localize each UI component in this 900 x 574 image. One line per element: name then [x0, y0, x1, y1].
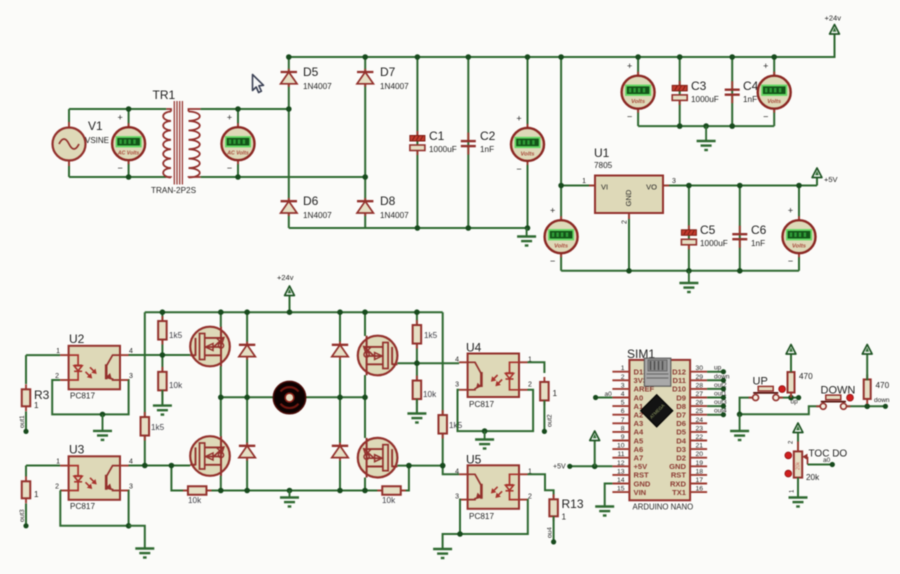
wire U4 pin2 path: [485, 390, 533, 431]
svg-text:PC817: PC817: [469, 400, 494, 409]
wire U5 pin4 jog: [443, 466, 459, 475]
node terminal out2: [542, 429, 547, 434]
wire C1 column: [416, 57, 418, 228]
svg-text:1: 1: [553, 389, 558, 398]
svg-text:C2: C2: [480, 129, 496, 143]
label R3 value 1: [34, 401, 39, 410]
svg-text:3: 3: [455, 494, 459, 501]
label pin number 8: [621, 425, 625, 432]
wire 470#1 stem: [790, 390, 792, 398]
wire net up: [707, 371, 723, 373]
node terminal out3: [721, 404, 726, 409]
ground G13 pot: [789, 497, 808, 506]
node M4 gate 1k5#4: [440, 463, 446, 469]
svg-text:470: 470: [799, 372, 813, 381]
node C4 top: [729, 54, 735, 60]
node terminal up net: [796, 395, 801, 400]
label U2 pin1: [56, 348, 60, 355]
svg-text:29: 29: [696, 374, 704, 381]
label R5 value 1: [34, 490, 39, 499]
wire C2 column: [467, 57, 469, 228]
label DOWN: [821, 385, 856, 397]
capacitor C3: [672, 81, 687, 105]
node terminal out2: [721, 386, 726, 391]
label UP: [753, 376, 768, 388]
label pin number 15: [617, 486, 625, 493]
wire U1 output row: [663, 185, 817, 187]
wire C3 meter E top: [637, 57, 639, 76]
label pin number 25: [696, 408, 704, 415]
wire U3 pin2 path: [60, 491, 129, 526]
node diodeB2 rail: [337, 488, 343, 494]
atmega chip diamond: [641, 395, 673, 427]
label pin number 23: [696, 425, 704, 432]
node terminal out3: [23, 523, 28, 528]
label pin name right RXD: [670, 479, 687, 488]
diode flyback B2: [332, 443, 348, 461]
wire out2 resistor down: [543, 401, 545, 432]
label C1: [429, 129, 445, 143]
svg-text:2: 2: [622, 220, 629, 224]
net label out3: [714, 399, 727, 406]
label 1k5 #1: [169, 331, 183, 340]
svg-text:470: 470: [876, 381, 890, 390]
wire M4 source: [364, 478, 366, 491]
label pin name A7: [634, 454, 644, 463]
svg-text:+24v: +24v: [277, 273, 294, 282]
wire U5 pin2 path: [460, 500, 528, 534]
wire meter AC2 bottom lead: [237, 160, 239, 177]
svg-text:23: 23: [696, 425, 704, 432]
node C2 bottom: [466, 225, 472, 231]
node C4 bottom: [729, 123, 735, 129]
svg-text:U4: U4: [466, 341, 482, 355]
label C1 value: [429, 145, 457, 154]
svg-text:2: 2: [621, 374, 625, 381]
label 20k: [806, 473, 820, 482]
svg-text:R3: R3: [34, 388, 50, 402]
svg-text:Volts: Volts: [792, 244, 807, 250]
power +5V arduino: [590, 431, 600, 466]
svg-text:4: 4: [455, 468, 459, 475]
svg-text:1nF: 1nF: [480, 145, 494, 154]
label pin name right D6: [676, 419, 686, 428]
label D7 value 1N4007: [380, 82, 409, 91]
node +5V arrow junction: [592, 464, 598, 470]
svg-text:19: 19: [696, 460, 704, 467]
svg-text:C3: C3: [691, 79, 707, 93]
svg-text:14: 14: [617, 477, 625, 484]
svg-text:10: 10: [617, 443, 625, 450]
node C2 top: [466, 54, 472, 60]
wire net out1: [707, 397, 723, 399]
net label out1: [714, 391, 727, 398]
wire U2 pin1 left: [26, 354, 60, 356]
meter Volts D plus: [788, 206, 793, 216]
node C1 top: [415, 54, 421, 60]
svg-text:20: 20: [696, 451, 704, 458]
label TRAN-2P2S: [151, 186, 197, 195]
label U1: [594, 146, 610, 160]
label D6: [303, 194, 319, 208]
label pin name right RST: [671, 471, 687, 480]
node meter AC2 bottom: [235, 174, 241, 180]
node U1 col top: [558, 54, 564, 60]
wire V1 left vertical bottom: [68, 161, 70, 178]
wire up button right: [779, 397, 799, 399]
svg-text:U2: U2: [69, 332, 85, 346]
label U1 pin3: [672, 178, 676, 185]
label pot pin2: [789, 440, 795, 444]
node 1k5#1 rail: [160, 309, 166, 315]
node M4 gate 10k4: [406, 463, 412, 469]
svg-text:C1: C1: [429, 129, 445, 143]
node terminal out1: [721, 395, 726, 400]
svg-text:Volts: Volts: [521, 151, 536, 157]
capacitor C6: [732, 226, 747, 248]
diode flyback B1: [332, 342, 348, 360]
diode D7: [357, 69, 373, 87]
svg-text:16: 16: [696, 486, 704, 493]
wire U5 pin3 path: [443, 500, 460, 549]
wire C6 column: [739, 186, 741, 271]
svg-text:10k: 10k: [423, 390, 437, 399]
node terminal out4: [721, 412, 726, 417]
meter Volts E plus: [627, 61, 632, 71]
wire M2 drain: [220, 397, 222, 436]
svg-text:GND: GND: [624, 189, 633, 206]
svg-text:−: −: [516, 164, 521, 174]
label pin number 26: [696, 400, 704, 407]
svg-text:ou4: ou4: [547, 527, 554, 538]
resistor 470 #1: [788, 367, 795, 398]
label 10k #4: [382, 496, 396, 505]
label 1k5 #3: [151, 423, 165, 432]
node down res junction: [864, 404, 870, 410]
wire R3 to out1: [25, 412, 27, 432]
label R13: [562, 497, 584, 511]
node diodeA2 rail: [244, 488, 250, 494]
net label out4: [714, 408, 727, 415]
label pin number 22: [696, 434, 704, 441]
svg-text:26: 26: [696, 400, 704, 407]
label 470 #2: [876, 381, 890, 390]
diode flyback A1: [239, 342, 255, 360]
node terminal down net: [883, 404, 888, 409]
power +5V output: [812, 168, 822, 186]
label pin number 2: [621, 374, 625, 381]
svg-text:U1: U1: [594, 146, 610, 160]
wire M1 source: [220, 366, 222, 397]
node secondary-bridge: [286, 106, 292, 112]
svg-text:out1: out1: [714, 391, 727, 398]
svg-text:TX1: TX1: [672, 488, 687, 497]
wire top rail: [289, 44, 835, 57]
wire gate row to 10k#1: [161, 355, 163, 372]
svg-text:D7: D7: [380, 65, 396, 79]
label pin number 11: [617, 451, 624, 458]
label pin name right D2: [676, 454, 686, 463]
svg-text:R13: R13: [562, 497, 584, 511]
label U4 pin2: [528, 382, 532, 389]
label D5 value 1N4007: [303, 82, 332, 91]
state dot pot bottom: [785, 470, 792, 477]
wire net down: [707, 379, 723, 381]
wire U2 pin3 path: [103, 380, 129, 414]
label C4: [743, 79, 759, 93]
svg-text:AC Volts: AC Volts: [226, 151, 249, 157]
wire M4 gate row: [397, 465, 442, 467]
node U2 gnd junction: [100, 412, 106, 418]
wire meter A column top: [527, 57, 529, 128]
state dot DOWN: [847, 394, 854, 401]
diode D5: [281, 69, 297, 87]
label U2 pin4: [129, 348, 133, 355]
svg-text:U3: U3: [69, 443, 85, 457]
wire R5 to out3: [25, 504, 27, 526]
ground G10 U5: [433, 549, 452, 558]
label U3 pin3: [129, 484, 133, 491]
label U5 pin1: [528, 468, 532, 475]
svg-text:out3: out3: [714, 399, 727, 406]
node meterA bottom gnd: [525, 225, 531, 231]
label +5V out: [824, 175, 838, 184]
label pin name 3V3: [634, 376, 648, 385]
node gate2 junction: [414, 360, 420, 366]
wire bridge right column: [364, 57, 366, 228]
label pin name right D5: [676, 428, 686, 437]
transformer TR1: [163, 101, 200, 185]
label pin name A3: [634, 419, 644, 428]
node terminal up: [721, 369, 726, 374]
wire bottom rail to 10k#4: [365, 490, 382, 492]
svg-text:C4: C4: [743, 79, 759, 93]
node arrow rail: [287, 309, 293, 315]
svg-text:1: 1: [621, 365, 625, 372]
label pin number 6: [621, 408, 625, 415]
meter Volts F plus: [763, 61, 768, 71]
svg-text:1000uF: 1000uF: [700, 239, 728, 248]
node C6 bottom: [737, 268, 743, 274]
wire V1 top to transformer primary: [69, 108, 166, 110]
svg-text:3: 3: [672, 178, 676, 185]
svg-text:C5: C5: [700, 223, 716, 237]
svg-text:down: down: [874, 397, 890, 404]
wire 1k5#2 to gate: [416, 344, 418, 364]
power +24v H-bridge: [285, 286, 295, 299]
label U3 pin4: [129, 458, 133, 465]
svg-text:AC Volts: AC Volts: [117, 151, 140, 157]
node meter AC1 top: [126, 106, 132, 112]
svg-text:+5V: +5V: [824, 175, 838, 184]
wire C5 group bottom rail: [561, 270, 799, 272]
svg-text:+: +: [763, 61, 768, 71]
wire pot wiper to a0: [808, 464, 833, 466]
label +24v top: [825, 14, 842, 23]
wire C3 column: [679, 57, 681, 126]
power +24v top right: [830, 25, 840, 58]
node terminal down: [721, 378, 726, 383]
op-amp U3 PC817: [60, 456, 128, 500]
label pin name A6: [634, 445, 644, 454]
svg-text:17: 17: [696, 477, 704, 484]
node terminal out1: [23, 429, 28, 434]
node M4 source rail: [362, 488, 368, 494]
net a0 label: [605, 391, 613, 398]
ground G8 U3: [135, 548, 154, 557]
label U1 pin1: [582, 178, 586, 185]
wire bridge bottom rail: [289, 227, 528, 229]
wire 1k5#4 to gate row: [442, 434, 444, 466]
wire U4 pin1 right: [528, 362, 545, 373]
svg-text:1: 1: [34, 490, 39, 499]
node M3 drain rail: [362, 309, 368, 315]
ground G5: [153, 390, 172, 415]
svg-text:a0: a0: [605, 391, 613, 398]
wire motor row: [221, 396, 365, 398]
wire 1k5#1 column top: [161, 312, 163, 321]
label U5 pin4: [455, 468, 459, 475]
node C5 top: [686, 183, 692, 189]
svg-text:VO: VO: [646, 183, 657, 192]
node C3 top: [677, 54, 683, 60]
node buttons gnd junction: [737, 412, 743, 418]
label D8: [380, 194, 396, 208]
meter Volts D minus: [788, 256, 793, 266]
wire 1k5#3 column: [144, 312, 146, 465]
label pin number 1: [621, 365, 625, 372]
node U4 gnd junction: [482, 428, 488, 434]
svg-text:4: 4: [621, 391, 625, 398]
net label out2: [714, 382, 727, 389]
meter AC Volts secondary: [222, 123, 255, 164]
wire M2 source: [220, 476, 222, 491]
wire U1 input column: [561, 57, 595, 186]
label pin number 9: [621, 434, 625, 441]
label U3 pin2: [55, 484, 59, 491]
capacitor C1: [410, 131, 425, 155]
node secondary-D8: [362, 174, 368, 180]
wire bottom rail left: [207, 490, 221, 492]
node U5 gnd junction: [457, 531, 463, 537]
svg-text:Volts: Volts: [767, 99, 782, 105]
svg-text:30: 30: [696, 365, 704, 372]
node meter AC2 top: [235, 106, 241, 112]
label out2 res value: [553, 389, 558, 398]
meter AC Volts secondary plus: [227, 113, 232, 123]
wire +24v bottom rail: [145, 311, 443, 313]
label C3 value: [691, 95, 719, 104]
svg-text:+5V: +5V: [553, 464, 566, 471]
svg-text:+: +: [627, 61, 632, 71]
regulator U1 7805: [589, 176, 669, 220]
wire meter AC1 bottom lead: [128, 160, 130, 177]
label ARDUINO NANO: [633, 503, 694, 512]
label pin name right D8: [676, 402, 686, 411]
wire V1 bottom to transformer primary: [69, 176, 166, 178]
capacitor C2: [461, 133, 476, 155]
label U2 pin2: [55, 373, 59, 380]
label U3 PC817: [70, 502, 95, 511]
svg-text:12: 12: [617, 460, 625, 467]
wire bottom rail mid: [221, 490, 365, 492]
svg-text:28: 28: [696, 382, 704, 389]
wire C3 meter E bottom: [637, 109, 639, 126]
label U1 pin2: [622, 220, 629, 224]
label 10k #3: [188, 496, 202, 505]
svg-text:21: 21: [696, 443, 704, 450]
svg-text:Volts: Volts: [631, 99, 646, 105]
label U2 PC817: [70, 392, 95, 401]
node terminal a0 pot: [830, 462, 835, 467]
svg-text:9: 9: [621, 434, 625, 441]
wire V1 left vertical top: [68, 109, 70, 128]
label pin number 27: [696, 391, 704, 398]
net +5V label: [553, 464, 566, 471]
label pin number 10: [617, 443, 625, 450]
node gnd rail: [287, 488, 293, 494]
label C5: [700, 223, 716, 237]
net out3: [19, 509, 26, 522]
svg-text:+: +: [550, 206, 555, 216]
wire buttons gnd run: [740, 406, 821, 414]
wire 1k5#4 column: [442, 312, 444, 415]
wire U1 gnd pin to bottom: [628, 213, 630, 271]
wire net out2: [707, 388, 723, 390]
svg-text:2: 2: [528, 382, 532, 389]
label U4 PC817: [469, 400, 494, 409]
svg-text:1k5: 1k5: [424, 331, 438, 340]
svg-text:6: 6: [621, 408, 625, 415]
ground G2 bridge: [517, 228, 536, 246]
svg-text:15: 15: [617, 486, 625, 493]
label pin number 24: [696, 417, 704, 424]
node gate1 junction: [160, 352, 166, 358]
mouse cursor: [253, 75, 264, 93]
node terminal a0: [593, 395, 598, 400]
label pin name right TX1: [672, 488, 687, 497]
node meterF top: [771, 54, 777, 60]
wire +5V to arduino: [570, 465, 613, 467]
node meterE top: [635, 54, 641, 60]
svg-text:Volts: Volts: [554, 244, 569, 250]
node D7 col top rail: [362, 54, 368, 60]
resistor 1k5 #1: [158, 316, 167, 345]
node meterA top: [525, 54, 531, 60]
label +24v H-bridge: [277, 273, 294, 282]
wire meter B bottom: [560, 253, 562, 271]
label U4: [466, 341, 482, 355]
node C5 bottom: [686, 268, 692, 274]
svg-text:1k5: 1k5: [449, 421, 463, 430]
wire 1k5#2 col top: [416, 312, 418, 325]
label pin name VIN: [634, 488, 647, 497]
label pin name right D7: [676, 411, 686, 420]
svg-text:22: 22: [696, 434, 704, 441]
meter AC Volts primary minus: [117, 163, 122, 173]
label pin number 13: [617, 468, 625, 475]
meter AC Volts primary: [112, 123, 145, 164]
transistor M4 bottom-right: [358, 438, 398, 478]
svg-text:10k: 10k: [188, 496, 202, 505]
wire 470#2 to arrow: [866, 357, 868, 380]
svg-text:UP: UP: [753, 376, 768, 388]
svg-text:out2: out2: [547, 414, 554, 427]
wire diode A2 column: [246, 397, 248, 490]
node M3 source motor row: [362, 395, 368, 401]
svg-text:U5: U5: [466, 453, 482, 467]
wire M1 drain: [220, 312, 222, 327]
